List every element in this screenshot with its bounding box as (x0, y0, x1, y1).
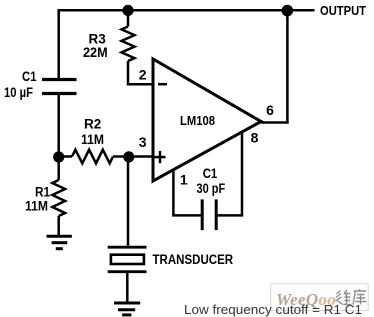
svg-text:6: 6 (266, 102, 274, 118)
svg-text:TRANSDUCER: TRANSDUCER (153, 252, 234, 267)
node B (R2 / pin3 / transducer junction) (123, 151, 134, 162)
resistor R1 (25, 157, 65, 216)
op-amp U1 LM108 (153, 59, 261, 181)
node A (C1 / R1 / R2 junction) (53, 151, 64, 162)
svg-text:11M: 11M (81, 132, 104, 147)
wire R1 to ground (57, 216, 60, 236)
wire transducer to ground (126, 273, 129, 303)
svg-text:1: 1 (180, 172, 188, 188)
plus sign (non-inverting input) (155, 151, 166, 163)
wire left vertical upper (57, 9, 60, 80)
svg-text:C1: C1 (203, 166, 218, 181)
wire pin 8 to compensation cap (217, 131, 243, 215)
ground (transducer) (114, 303, 140, 315)
svg-text:8: 8 (251, 130, 259, 146)
wire output riser (286, 10, 289, 122)
svg-text:3: 3 (139, 134, 147, 150)
wire R3 to pin 2 (128, 61, 153, 84)
transducer X1 (108, 247, 234, 272)
watermark CJK glyph 库 (353, 289, 367, 305)
svg-text:R2: R2 (84, 117, 101, 132)
minus sign (inverting input) (158, 83, 167, 86)
svg-text:30 pF: 30 pF (197, 181, 226, 196)
pin 6 output wire (261, 121, 289, 124)
resistor R3 (83, 10, 135, 61)
svg-text:2: 2 (139, 67, 147, 83)
node top (junction of rail and R3) (122, 5, 133, 16)
svg-text:11M: 11M (25, 199, 48, 214)
resistor R2 (59, 117, 129, 164)
ground (R1) (47, 236, 72, 248)
svg-text:10 µF: 10 µF (4, 85, 33, 100)
svg-text:OUTPUT: OUTPUT (320, 3, 366, 18)
svg-text:R1: R1 (35, 184, 50, 199)
capacitor C1 10uF (4, 69, 77, 100)
node output (rail junction) (282, 5, 294, 17)
capacitor C1 30pF (compensation) (197, 166, 226, 230)
wire left vertical lower (57, 94, 60, 158)
svg-text:LM108: LM108 (180, 113, 215, 128)
wire node B to pin 3 (129, 155, 153, 158)
wire node B to transducer (127, 157, 130, 246)
watermark box WeeQoo (271, 284, 369, 311)
wire top rail (59, 9, 315, 12)
svg-text:Low frequency cutoff = R1 C1: Low frequency cutoff = R1 C1 (184, 302, 362, 317)
wire pin 1 to compensation cap (172, 169, 202, 215)
svg-text:22M: 22M (83, 45, 108, 60)
svg-text:C1: C1 (22, 69, 37, 84)
watermark CJK glyph 维 (336, 290, 352, 305)
